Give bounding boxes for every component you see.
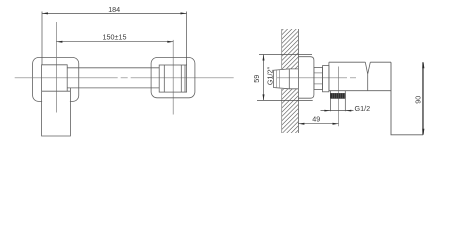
pipe bottom line	[67, 87, 159, 89]
handle hides flange bottom	[42, 96, 70, 135]
left valve square body	[42, 65, 68, 91]
inlet pipe thread ticks	[277, 70, 280, 88]
svg-text:49: 49	[312, 115, 320, 124]
handle side	[391, 62, 423, 135]
nut facet bottom	[314, 83, 323, 85]
connector collar	[323, 66, 329, 92]
left square bottom line	[42, 90, 71, 92]
inlet pipe G1/2	[274, 69, 299, 89]
G1/2 outlet label leader	[321, 110, 354, 112]
right escutcheon flange	[151, 58, 195, 98]
svg-text:90: 90	[413, 96, 422, 104]
centerline vertical right valve	[172, 40, 174, 115]
inner vertical a	[163, 65, 165, 92]
svg-text:G1/2″: G1/2″	[266, 66, 275, 85]
V notch parting	[365, 62, 370, 90]
nut facet top	[314, 72, 323, 74]
centerline horizontal front view	[15, 77, 235, 79]
pipe top line	[67, 67, 159, 69]
inner vertical c	[184, 65, 186, 92]
wall face line	[297, 29, 299, 133]
dimension 184	[42, 12, 187, 66]
svg-text:59: 59	[252, 75, 261, 83]
svg-text:184: 184	[108, 5, 120, 14]
outlet axis centerline	[338, 67, 340, 127]
outlet nipple threaded	[330, 91, 345, 99]
dimension 49	[298, 123, 338, 125]
nipple side extension lines	[330, 99, 345, 112]
wall back line	[281, 29, 283, 133]
inner vertical b	[180, 65, 182, 92]
handle body front	[42, 88, 71, 136]
side centerline	[277, 77, 356, 79]
wall hatching	[275, 7, 301, 158]
dimension 90	[422, 62, 424, 135]
hex nut	[314, 67, 323, 89]
centerline vertical left valve	[55, 22, 57, 113]
left escutcheon flange	[33, 58, 79, 102]
dimension 150±15	[56, 41, 173, 43]
dimension 59	[257, 55, 313, 101]
right inner connector rect	[159, 65, 186, 92]
svg-text:150±15: 150±15	[103, 33, 127, 42]
valve body side	[329, 62, 391, 90]
escutcheon side	[298, 57, 314, 98]
svg-text:G1/2: G1/2	[355, 104, 371, 113]
